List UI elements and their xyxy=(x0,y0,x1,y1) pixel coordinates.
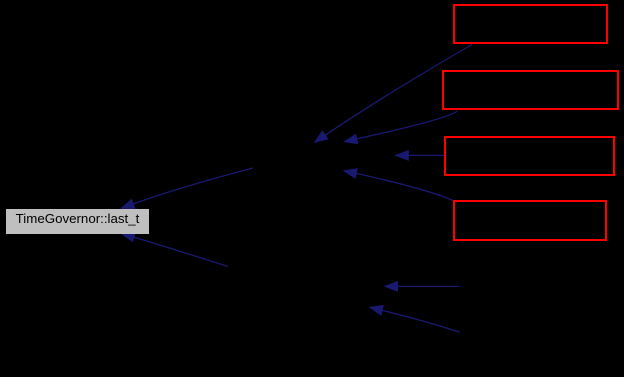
arrowhead E6 xyxy=(384,281,399,292)
arrowhead E4 xyxy=(343,168,358,179)
wire edge E1: node R1 to node M1 xyxy=(316,45,472,142)
arrowhead E1 xyxy=(314,130,329,143)
wire edge E6: node R5 to node M2 xyxy=(394,285,460,287)
node R2 (red truncated box) xyxy=(442,70,619,110)
arrowhead E8 xyxy=(120,232,135,243)
node R3 (red truncated box) xyxy=(444,136,615,176)
wire edge E8: node M2 to node TimeGovernor::last_t xyxy=(122,234,228,267)
wire edge E3: node R3 to node M1 xyxy=(405,154,444,156)
node R4 (red truncated box) xyxy=(453,200,607,241)
arrowhead E7 xyxy=(369,305,384,316)
arrowhead E3 xyxy=(394,150,409,161)
node R1 (red truncated box) xyxy=(453,4,608,44)
wire edge E2: node R2 to node M1 xyxy=(346,111,458,141)
wire edge E4: node R4 to node M1 xyxy=(345,171,453,201)
wire edge E7: node R6 to node M2 xyxy=(371,308,460,333)
arrowhead E5 xyxy=(120,199,136,209)
arrowhead E2 xyxy=(343,134,358,145)
wire edge E5: node M1 to node TimeGovernor::last_t xyxy=(122,168,253,208)
node TimeGovernor::last_t (current node, gray) xyxy=(6,209,149,234)
